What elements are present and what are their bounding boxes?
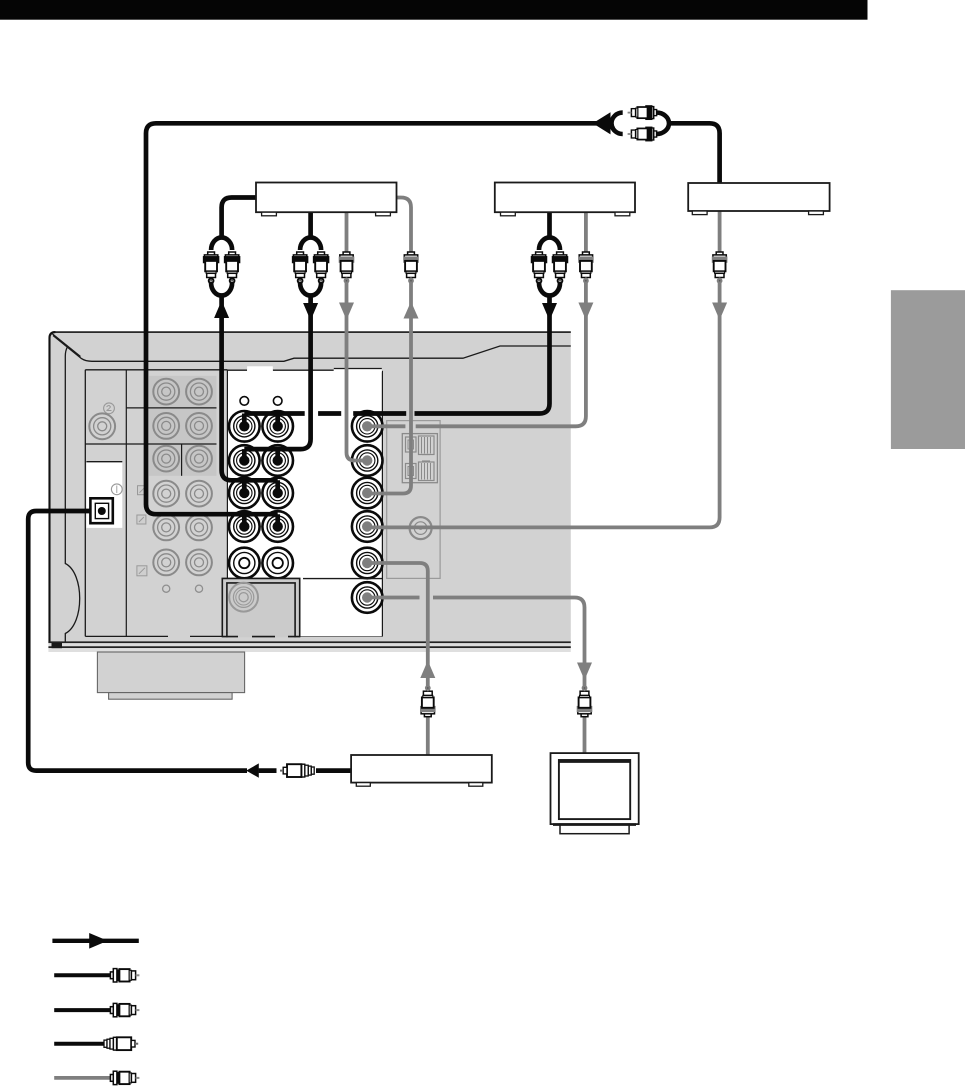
loop arcs on box1-left pair (211, 238, 232, 296)
receiver bottom edge line (48, 641, 570, 643)
TV outer body (551, 753, 639, 824)
video jack V2 (352, 445, 383, 476)
loop arcs on box1-right pair (300, 238, 321, 296)
panel right border (381, 371, 383, 637)
receiver bottom lower line (48, 646, 570, 648)
audio jack row1 L (229, 411, 260, 442)
video jack V5 (352, 548, 383, 579)
audio jack row1 R (262, 411, 293, 442)
arrow down on box1-right pair (303, 303, 318, 321)
TV screen (559, 760, 630, 819)
panel top border segments (227, 369, 333, 371)
panel divider vertical (125, 370, 127, 637)
plug on box1 video cable (340, 252, 353, 282)
6ch input jack row2 R (186, 413, 212, 439)
arrow up on box1-left pair (214, 301, 229, 319)
cable video V3 up to box1 right (367, 198, 411, 494)
circled 2 label (104, 403, 115, 414)
panel left border (226, 370, 228, 636)
legend s-video cable (54, 1042, 104, 1046)
plug R on box1-left pair (225, 252, 238, 282)
speaker terminal top-right striped (419, 436, 435, 455)
white jack panel (227, 370, 382, 636)
arrow up on V5 cable (420, 661, 435, 679)
6ch input jack row2 L (153, 413, 179, 439)
box1 component (256, 183, 397, 213)
unused gray jack in sub box (229, 583, 258, 612)
audio jack row4 L (229, 511, 260, 542)
audio jack row3 L (229, 478, 260, 509)
loop left arc (612, 113, 623, 134)
gray sub box in panel outer border (222, 578, 299, 637)
cable video box1 down to V2 (347, 212, 368, 460)
6ch input jack row4 L (153, 481, 179, 507)
small icon square B (137, 515, 146, 524)
6ch input jack row3 L (153, 446, 179, 472)
sub box bottom border with gaps (222, 636, 299, 638)
inner frame top line (85, 369, 227, 371)
arrow up on V3 cable (404, 302, 419, 319)
legend audio pin cable 1 (54, 973, 110, 977)
white cutout around optical jack (86, 462, 122, 528)
receiver top edge (53, 331, 571, 333)
plug L on box1-right pair (293, 252, 306, 282)
audio jack row3 R (262, 478, 293, 509)
loop plug upper pointing left (628, 107, 657, 119)
left jack block rows 1-2 (149, 376, 217, 444)
loop cable right segment to box3 (668, 123, 720, 183)
gray jack 2 (89, 413, 115, 439)
receiver left edge (50, 332, 56, 643)
audio jack row5 R open (262, 548, 293, 579)
audio jack row2 R (262, 445, 293, 476)
box3 component (688, 183, 829, 211)
top title bar (0, 0, 868, 20)
cable V6 monitor out to TV (367, 598, 584, 754)
plug on TV cable pin up (578, 687, 591, 717)
plug on box2 video cable (579, 252, 592, 282)
speaker terminal bottom-right striped (419, 462, 435, 481)
receiver bottom-left corner mark (52, 643, 63, 648)
arrow down on box1 video cable (339, 303, 354, 321)
S-plug on optical cable pointing left (280, 764, 314, 777)
arrow down on box2 pair (542, 303, 557, 321)
white tab 1 (247, 366, 273, 372)
big loop cable: row4 jacks up over the top to box3 (146, 123, 612, 526)
block divider line y444 (85, 443, 216, 445)
arrow down on box2 video cable (578, 303, 593, 321)
legend audio pin cable 2 (54, 1008, 110, 1012)
arrow left on loop cable (593, 112, 611, 134)
audio jack row5 L open (229, 548, 260, 579)
left jack block row 3 (149, 444, 217, 476)
TV base (560, 824, 629, 834)
video jack V4 (352, 511, 383, 542)
video jack V6 monitor out (352, 582, 383, 613)
6ch input jack row4 R (186, 481, 212, 507)
loop plug lower pointing left (628, 128, 657, 140)
optical jack pin (98, 507, 106, 515)
white tab 2 with top border (334, 369, 382, 372)
left side bevel with notch (65, 347, 79, 642)
pair cable box1-right to row2 jacks (244, 212, 310, 460)
video jack V1 (352, 411, 383, 442)
receiver bottom strip (48, 643, 570, 646)
block divider line y408 (126, 407, 216, 409)
box2 feet (501, 212, 516, 216)
panel screw circles (240, 397, 249, 406)
right sub panel outline (387, 421, 440, 579)
arrow left on optical cable (246, 763, 259, 777)
plug R on box1-right pair (314, 252, 327, 282)
6ch input jack row1 L (153, 379, 179, 405)
plug L on box1-left pair (204, 252, 217, 282)
receiver foot base (109, 693, 233, 700)
audio jack row4 R (262, 511, 293, 542)
cable video box3 down to V4 (367, 211, 719, 527)
bottom device feet (356, 783, 370, 787)
arrow down on TV cable (577, 663, 592, 681)
gray sub box inner border (227, 583, 295, 637)
6ch input jack row1 R (186, 379, 212, 405)
circled 1 label (111, 484, 122, 495)
cable video box2 down to V1 (367, 212, 586, 426)
optical jack inner square (95, 503, 108, 518)
bottom device box (351, 755, 492, 783)
speaker terminal block frame (402, 434, 437, 483)
plug L on box2 pair (532, 252, 545, 282)
6ch input jack row5 R (186, 515, 212, 541)
audio jack row2 L (229, 445, 260, 476)
plug on V5 cable pin up (421, 687, 434, 717)
pair cable box1-left to row3 jacks (222, 198, 278, 494)
cutout top border (86, 461, 122, 463)
speaker clip top-left (406, 437, 417, 452)
plug on V3 cable (404, 252, 417, 282)
speaker clip bottom-left (406, 464, 417, 479)
top face bevel line (53, 336, 571, 362)
6ch input jack row3 R (186, 446, 212, 472)
cable V5 down to bottom device (367, 563, 428, 755)
loop right arc (656, 113, 669, 134)
loop arcs on box2 pair (539, 238, 560, 296)
trunk segments with crossing gaps (244, 411, 406, 416)
video jack V3 (352, 478, 383, 509)
right page tab (891, 290, 965, 449)
inner frame bottom line (85, 635, 382, 637)
row3 center divider (181, 444, 183, 476)
6ch input jack row6 R (186, 550, 212, 576)
left block small screw circles (163, 585, 170, 592)
optical jack outer square (90, 498, 112, 523)
legend video pin cable gray (54, 1076, 110, 1080)
receiver foot (97, 652, 244, 693)
receiver body (48, 331, 570, 642)
receiver bottom shadow strip (48, 648, 570, 652)
top face bevel diagonal double line (52, 334, 81, 357)
small icon square C (137, 566, 147, 576)
box2 component (495, 183, 635, 213)
arrow down on box3 video cable (712, 303, 727, 321)
6ch input jack row5 L (153, 515, 179, 541)
TV base top thick edge (553, 823, 636, 826)
panel section divider line (303, 578, 383, 580)
inner frame left line (84, 370, 86, 637)
legend signal direction arrow line (52, 939, 138, 943)
optical cable from bottom device to optical jack (28, 511, 351, 771)
6ch input jack row6 L (153, 550, 179, 576)
TV screen top thick edge (558, 760, 630, 763)
box3 feet (692, 211, 707, 215)
plug R on box2 pair (553, 252, 566, 282)
small icon square A (138, 486, 147, 495)
box1 feet (262, 212, 277, 216)
antenna coax jack (410, 517, 432, 539)
pair cable box2 to row1 jacks with dashed part (244, 212, 549, 426)
plug on box3 video cable (713, 252, 726, 282)
